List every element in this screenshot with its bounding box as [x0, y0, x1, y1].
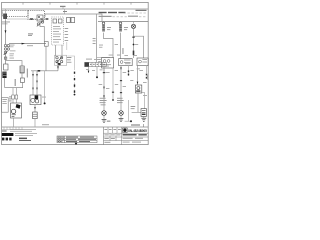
dark label segment on lamp C wire [133, 51, 135, 56]
wire: into ignition switch [96, 58, 98, 63]
header text row 2 right [99, 16, 138, 17]
arrow on switch output [57, 66, 59, 69]
wire: connector down [21, 73, 23, 78]
dark contact blob [58, 63, 61, 65]
strip pin leads [88, 67, 90, 73]
legend sheet code [2, 130, 7, 131]
label under connector [2, 21, 10, 24]
revision table [57, 136, 97, 143]
dark wedge inside unit [16, 104, 21, 109]
row3 text [123, 138, 143, 139]
wire: top power bus [2, 8, 149, 10]
node label above bus [60, 6, 66, 7]
title block left edge [103, 127, 105, 145]
label above title block [131, 124, 140, 125]
subtitle text [123, 134, 147, 136]
motor marks [12, 115, 16, 117]
frame tick marks top [23, 2, 131, 4]
ground lamp E [119, 118, 124, 121]
wire: feed row y14 [45, 14, 102, 22]
wire: ground tie left [125, 120, 131, 122]
wire: stub from switch area [66, 42, 68, 50]
label inside ECU box [2, 99, 7, 104]
label right of sender [42, 124, 49, 125]
wire: lamp E to ground [120, 115, 122, 118]
wire: switch output down [57, 64, 59, 71]
gauge circles [31, 98, 35, 102]
vertical label column [15, 69, 28, 87]
label right of fuse [10, 45, 16, 52]
relay box A [102, 58, 114, 68]
legend black bar [2, 133, 14, 136]
wire: connectors to motor unit [12, 99, 14, 103]
fuse F1 circles on left line [4, 44, 6, 54]
wire: horizontal link row [9, 43, 46, 45]
wire: right column stub [128, 100, 130, 121]
arrow on link row [22, 43, 25, 45]
marks aux output [128, 70, 129, 75]
label right of stack A [107, 27, 111, 30]
connector stack A (hatched) [102, 22, 105, 31]
wire: horizontal collector y70.8 [31, 70, 58, 72]
column switch cluster [55, 55, 67, 65]
ECU box far left [2, 98, 9, 113]
dark component (sensor) [2, 72, 6, 78]
indicator lamp C [131, 22, 135, 29]
junction square on left line [4, 57, 6, 59]
wire: left line continues [5, 54, 7, 64]
combination gauge box [30, 95, 41, 105]
legend note lines [10, 129, 37, 136]
ignition switch strip [85, 62, 107, 66]
scattered wire labels right section [86, 44, 148, 96]
switch labels [67, 57, 72, 63]
legend approval mark [19, 138, 31, 141]
connector stack B (hatched) [119, 22, 122, 31]
connector dash on lamp C wire [132, 37, 134, 38]
wire: sender to frame bottom [34, 119, 36, 127]
wire: relay B output to lamp [120, 66, 122, 111]
labels above relay B [117, 48, 124, 56]
connector box 2 [20, 78, 24, 82]
relay contact boxes inside [53, 19, 57, 23]
wire: K1 down jog [40, 21, 44, 42]
marks on right output [146, 74, 147, 79]
legend stamp blobs [2, 138, 12, 141]
wire: cluster down [137, 93, 139, 112]
border frame [2, 2, 149, 144]
company logo mark [123, 128, 128, 132]
ground lamp D [102, 119, 107, 122]
dash marks relay B output [120, 80, 122, 81]
junction mark on collector [38, 70, 41, 72]
ground condenser [141, 118, 146, 121]
wire: connector feed row y19 [7, 18, 37, 20]
labels left of leads [9, 96, 12, 101]
wire: relay C output left [137, 66, 139, 85]
wire: relay A output down [103, 68, 105, 111]
arrows on relay A output [103, 87, 105, 90]
wire: relay column down through collector [45, 46, 47, 71]
arrows on gauge feeds [32, 74, 34, 77]
text inside dashed box [53, 26, 61, 43]
connector C-01 (dark) [3, 14, 7, 19]
label rows above lamp E [117, 98, 124, 103]
label right of stack B [124, 27, 128, 30]
dashed rule row 1 [124, 12, 147, 14]
dashed wire column x74.5 [74, 68, 76, 94]
label left of ignition feed [93, 38, 96, 44]
title strip top rule [2, 126, 149, 128]
wiper motor unit box [11, 103, 22, 118]
dash mark [46, 18, 49, 19]
connector block (hatched) mid-left [20, 66, 24, 73]
lamp E [119, 111, 124, 116]
label near drop [63, 11, 67, 12]
wire: condenser tie [132, 111, 141, 113]
labels right of dashed box [65, 28, 69, 41]
wire: cluster corner to right [142, 93, 145, 109]
condenser box [141, 109, 146, 117]
wire: lamp C down [133, 29, 135, 59]
sender unit box [33, 112, 38, 119]
wire: ignition feed column [96, 14, 98, 58]
lamp D [102, 111, 107, 116]
junction dot lamp C wire [133, 44, 135, 46]
svg-text:XN-4524B005: XN-4524B005 [128, 129, 147, 133]
dark tab on gauge box [35, 95, 39, 99]
label rows above lamp D [100, 98, 107, 106]
wire: branch to relay box 2 [134, 36, 144, 58]
relay box C (right) [137, 58, 148, 66]
wire: motor unit to frame bottom [12, 118, 14, 127]
dashed rule row 2 [113, 16, 128, 18]
wire: relay K1 out right [43, 18, 49, 20]
wire: lamp D to ground [103, 115, 105, 119]
arrow on relay C output [137, 82, 139, 85]
revision table text [58, 137, 96, 142]
wire: below collector stub [44, 71, 46, 103]
wire: relay outputs down to column switch [55, 45, 57, 56]
wire: stack A jog to x113 [104, 33, 114, 58]
label left of relay A [98, 59, 101, 62]
gauge label [42, 96, 46, 99]
inline connector boxes [12, 95, 15, 99]
marks on dashed column [74, 72, 75, 93]
pin boxes right of dashed box [67, 17, 71, 22]
dash mark [103, 72, 105, 73]
wire: sensor to ground rail [4, 78, 6, 88]
wire: rail drops to motor unit [12, 88, 14, 95]
wire: strip feed right [97, 57, 111, 59]
wire: stack B down [120, 33, 122, 59]
wire: ground rail horizontal [5, 87, 23, 89]
dashed junction block (fusible link box) top-left [3, 11, 28, 17]
legend cell ticks bottom-left [2, 127, 23, 130]
wire tick from label to bus [62, 7, 64, 9]
end dot [44, 102, 46, 104]
fuse second column [4, 44, 10, 54]
wire: jog to dashed column [67, 56, 74, 68]
wire: left feed down [5, 19, 7, 44]
revision triangle [75, 143, 78, 145]
header text row 1 right [99, 12, 126, 13]
junction dot ground tie [130, 120, 132, 122]
end dot dashed column [74, 94, 76, 96]
title block small cell text [104, 129, 120, 143]
wire: gauge down [34, 105, 36, 112]
relay box K1 [37, 15, 43, 21]
component box on link corner [44, 42, 48, 47]
wire: relay A second output [112, 68, 114, 100]
wire: relay C output right [146, 66, 148, 73]
wire: bus to connector C-01 [5, 9, 7, 13]
wire: condenser ground [143, 116, 145, 118]
wire: to ground rail [21, 82, 23, 87]
label under link row [27, 45, 33, 46]
switch box S2 [4, 64, 8, 70]
tick above title block [143, 124, 145, 127]
arrow [34, 107, 36, 109]
wire: right section bus y21.5 [98, 21, 148, 23]
label left of condenser [131, 106, 136, 109]
wire: gauge feeds down [32, 71, 34, 95]
dash mark on feed row [30, 18, 33, 19]
relay box B [119, 59, 133, 66]
dashed relay box (column unit) [52, 17, 64, 45]
label above fuse wire [28, 33, 33, 36]
wire: bus drop to feed row [64, 9, 66, 14]
label right of junction [10, 53, 15, 58]
title block rules [104, 127, 149, 145]
row4 text [123, 142, 141, 143]
arrow on relay B output [120, 67, 122, 70]
ground label D [107, 121, 111, 122]
dash marks second output [112, 92, 114, 93]
switch arm under K1 [37, 20, 44, 26]
arrow on left feed [5, 30, 7, 33]
motor M circle [11, 109, 15, 113]
wire: relay B aux output [128, 66, 130, 76]
wire: branch to connector column [6, 61, 23, 66]
resistor cluster [135, 85, 141, 93]
